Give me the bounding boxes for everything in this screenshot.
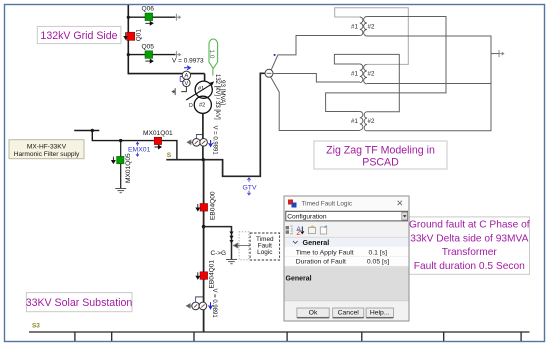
svg-text:0.05 [s]: 0.05 [s] [367, 259, 389, 266]
wire meter tap mid [195, 135, 197, 139]
svg-text:GTV: GTV [243, 185, 257, 192]
svg-text:D: D [189, 103, 193, 109]
transformer winding #1 [195, 81, 212, 98]
breaker MX01Q05 [112, 153, 132, 183]
wire Q06 branch [128, 16, 175, 18]
svg-text:✕: ✕ [396, 198, 403, 208]
meters bottom [195, 297, 197, 302]
arrow meter left terminal [187, 140, 192, 144]
wire 33kV bus vertical [203, 160, 205, 332]
breaker Q05 [142, 44, 155, 63]
svg-text:Cancel: Cancel [338, 310, 360, 317]
wire bottom bus [29, 331, 530, 333]
arrow blue down bottom [209, 302, 213, 308]
svg-text:#1: #1 [351, 118, 358, 125]
svg-text:Q05: Q05 [142, 44, 155, 51]
wire MX01Q05 drop [120, 141, 122, 188]
setpoint capsule 1.0 [212, 69, 214, 76]
wire T1 gray loop [335, 8, 409, 65]
toolbar icons [286, 226, 327, 238]
box Zig Zag TF Modeling in PSCAD [314, 141, 447, 169]
svg-text:Fault duration 0.5 Secon: Fault duration 0.5 Secon [414, 261, 525, 272]
wire N to T2 [273, 74, 360, 83]
svg-text:Timed Fault Logic: Timed Fault Logic [302, 200, 353, 207]
svg-text:EB04Q01: EB04Q01 [208, 260, 215, 289]
wire TFL signal [233, 243, 250, 248]
arrow blue right [184, 66, 190, 70]
wire T2#1 to T3#2 [334, 54, 399, 111]
svg-text:Ok: Ok [309, 310, 318, 317]
wire 132kV bus vertical [128, 5, 204, 74]
svg-text:V = 0.9891: V = 0.9891 [212, 126, 218, 156]
transformer Z1 [360, 17, 367, 37]
svg-text:Configuration: Configuration [287, 213, 327, 220]
svg-text:#1: #1 [351, 24, 358, 31]
terminal Q06 [176, 14, 181, 21]
arrow blue down mid [209, 140, 213, 146]
transformer Z2 [360, 64, 367, 84]
svg-text:General: General [286, 276, 312, 283]
svg-text:Ground fault at C Phase of: Ground fault at C Phase of [409, 220, 530, 231]
wire transformer to 33kV [202, 113, 204, 159]
svg-text:Duration of Fault: Duration of Fault [296, 259, 346, 266]
wire MX to S line [162, 141, 177, 160]
meter V top [183, 79, 190, 86]
dialog icon [288, 200, 293, 205]
breaker EB04Q00 [196, 191, 216, 220]
svg-text:C->G: C->G [211, 250, 226, 257]
dropdown Configuration [286, 211, 408, 221]
svg-text:#2: #2 [199, 103, 205, 109]
svg-text:PSCAD: PSCAD [362, 157, 399, 169]
box ground fault note [409, 217, 530, 274]
wire stub drop [92, 131, 154, 141]
arrow meter left terminal bottom [187, 304, 192, 308]
svg-text:EMX01: EMX01 [128, 147, 151, 154]
terminal zig zag [491, 53, 499, 55]
wire meter blue tap [180, 77, 183, 82]
section header General [285, 238, 409, 247]
node fault junction [202, 225, 206, 229]
box 132kV Grid Side [37, 26, 121, 43]
svg-text:MX01Q01: MX01Q01 [143, 130, 173, 137]
svg-text:S3: S3 [32, 323, 40, 330]
svg-text:Time to Apply Fault: Time to Apply Fault [296, 249, 354, 256]
property rows [285, 247, 409, 267]
svg-text:33KV Solar Substation: 33KV Solar Substation [26, 297, 133, 309]
node neutral circle [265, 69, 273, 77]
fault arrows [229, 232, 233, 244]
transformer Z3 [360, 112, 367, 131]
svg-text:Q01: Q01 [136, 29, 143, 42]
svg-text:#2: #2 [368, 71, 375, 78]
wire meter ground link [181, 87, 186, 92]
svg-text:MX-HF-33KV: MX-HF-33KV [27, 143, 67, 150]
svg-text:1.0: 1.0 [208, 50, 215, 59]
svg-text:Zig Zag TF Modeling in: Zig Zag TF Modeling in [326, 145, 435, 157]
svg-text:93 [MVA]: 93 [MVA] [219, 80, 226, 105]
help panel [285, 267, 409, 301]
box MX-HF-33KV harmonic filter supply [9, 140, 84, 159]
svg-text:V: V [185, 81, 189, 87]
svg-text:A: A [184, 74, 188, 80]
wire T2#2 bottom [367, 83, 491, 85]
wire N to T3 [271, 77, 360, 131]
wire secondary common [367, 36, 491, 131]
svg-text:33kV Delta side of 93MVA: 33kV Delta side of 93MVA [410, 233, 528, 244]
svg-text:Logic: Logic [257, 249, 273, 256]
tap changer arrow [186, 84, 212, 100]
terminal Q05 [176, 51, 181, 58]
node label GTV [243, 178, 257, 195]
terminal left of transformer [171, 88, 175, 95]
node S line junction [202, 158, 205, 161]
node Q05 junction [127, 53, 130, 56]
svg-text:V = 0.9891: V = 0.9891 [211, 289, 217, 319]
svg-text:0.1 [s]: 0.1 [s] [368, 249, 387, 256]
svg-text:132 [kV] / 33 [kV]: 132 [kV] / 33 [kV] [214, 74, 220, 120]
svg-text:V = 0.9973: V = 0.9973 [172, 57, 204, 64]
wire transformer drop [204, 74, 206, 81]
svg-text:#1: #1 [351, 71, 358, 78]
breaker EB04Q01 [196, 260, 215, 289]
meter pair mid [193, 139, 201, 147]
ground fault [226, 260, 237, 264]
buttons [297, 308, 394, 318]
box 33KV Solar Substation [26, 293, 133, 312]
svg-text:EB04Q00: EB04Q00 [210, 191, 217, 220]
svg-text:#2: #2 [368, 24, 375, 31]
svg-text:#2: #2 [368, 118, 375, 125]
wire S line [166, 73, 265, 176]
ground MX01Q05 [115, 189, 126, 193]
breaker MX01Q01 [143, 130, 173, 149]
wire N to T1 [271, 36, 360, 70]
wire T1#2 to T3#1 [326, 17, 446, 112]
svg-text:Help...: Help... [370, 310, 390, 317]
wire Q05 branch [128, 54, 175, 56]
node Q06 junction [127, 16, 130, 19]
svg-text:Harmonic Filter supply: Harmonic Filter supply [14, 151, 80, 158]
svg-text:Q06: Q06 [142, 6, 155, 13]
svg-text:General: General [303, 238, 330, 247]
svg-text:132kV Grid Side: 132kV Grid Side [40, 30, 117, 42]
svg-text:Transformer: Transformer [442, 247, 498, 258]
wire stub bus [74, 130, 99, 132]
wire fault branch [204, 227, 232, 259]
node MX junction [119, 139, 122, 142]
blue dot [274, 54, 276, 56]
meter A top [182, 71, 190, 79]
box Timed Fault Logic [250, 233, 280, 260]
box dotted fault port [239, 232, 249, 260]
node label EMX01 [128, 142, 151, 156]
bus ticks [75, 332, 521, 341]
breaker Q01 [124, 29, 143, 42]
svg-text:MX01Q05: MX01Q05 [125, 153, 132, 183]
svg-text:Z: Z [297, 230, 301, 237]
transformer winding #2 [194, 96, 211, 113]
breaker Q06 [142, 6, 155, 26]
svg-text:S: S [167, 152, 172, 159]
node stub junction [91, 129, 94, 132]
